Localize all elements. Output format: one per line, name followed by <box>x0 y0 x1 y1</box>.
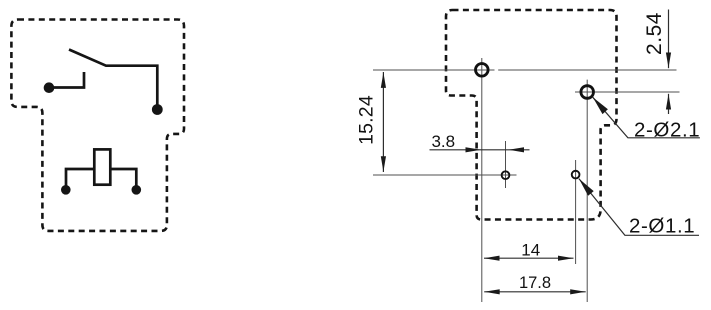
switch fixed contact wire <box>49 72 84 88</box>
svg-text:14: 14 <box>521 241 540 260</box>
svg-text:2-Ø2.1: 2-Ø2.1 <box>634 119 700 142</box>
coil left terminal dot <box>61 185 71 195</box>
coil body rectangle <box>94 149 110 184</box>
hole H1 horizontal centerline / 15.24 top extension line <box>373 69 677 71</box>
dimension 2.54 lower line <box>668 94 670 114</box>
hole H3 horizontal centerline / 15.24 bottom extension line <box>373 174 517 176</box>
leader line for 2-Ø2.1 <box>593 97 700 138</box>
dimension 17.8 right arrowhead <box>570 289 586 294</box>
leader arrowhead to hole H4 <box>579 179 594 196</box>
switch common terminal dot <box>152 104 163 115</box>
dimension 17.8 left arrowhead <box>484 289 500 294</box>
hole H2 horizontal centerline / 2.54 lower extension line <box>575 91 680 93</box>
dimension 2.54 down arrowhead <box>666 53 671 69</box>
dimension 17.8 line <box>484 291 586 293</box>
coil right wire <box>111 169 137 186</box>
leader line for 2-Ø1.1 <box>579 179 699 236</box>
svg-text:17.8: 17.8 <box>519 274 551 292</box>
leader arrowhead to hole H2 <box>593 97 608 114</box>
switch fixed contact terminal dot <box>44 82 55 93</box>
switch blade (movable contact) <box>69 50 157 107</box>
dimension 3.8 right-pointing arrowhead <box>466 147 482 152</box>
hole H4 (pin hole 1.1mm) <box>572 171 580 179</box>
PCB layout outline (dashed) <box>446 10 617 220</box>
dimension 2.54 up arrowhead <box>666 94 671 110</box>
svg-text:2-Ø1.1: 2-Ø1.1 <box>629 214 695 237</box>
hole H2 vertical centerline / 17.8 right extension line <box>586 80 588 302</box>
dimension 14 line <box>484 257 574 259</box>
hole H3 (pin hole 1.1mm) <box>502 171 510 179</box>
dimension 2.54 upper line <box>668 10 670 69</box>
hole H4 vertical centerline / 14 right extension line <box>575 160 577 264</box>
coil left wire <box>66 169 94 186</box>
svg-text:3.8: 3.8 <box>431 132 455 151</box>
svg-text:15.24: 15.24 <box>356 95 378 145</box>
hole H1 (pin hole 2.1mm) <box>476 64 489 77</box>
coil right terminal dot <box>132 185 142 195</box>
hole H3 vertical centerline <box>505 141 507 188</box>
dimension 15.24 top arrowhead <box>381 72 386 88</box>
dimension 15.24 line <box>382 72 384 172</box>
dimension 3.8 line <box>430 149 530 151</box>
dimension 14 right arrowhead <box>558 256 574 261</box>
hole H2 (pin hole 2.1mm) <box>581 86 594 99</box>
dimension 14 left arrowhead <box>484 256 500 261</box>
hole H1 vertical centerline / 14 17.8 left extension line <box>481 58 483 302</box>
relay body outline (dashed, schematic view) <box>11 20 184 231</box>
dimension 15.24 bottom arrowhead <box>381 156 386 172</box>
svg-text:2.54: 2.54 <box>643 12 666 55</box>
dimension 3.8 left-pointing arrowhead <box>509 147 525 152</box>
